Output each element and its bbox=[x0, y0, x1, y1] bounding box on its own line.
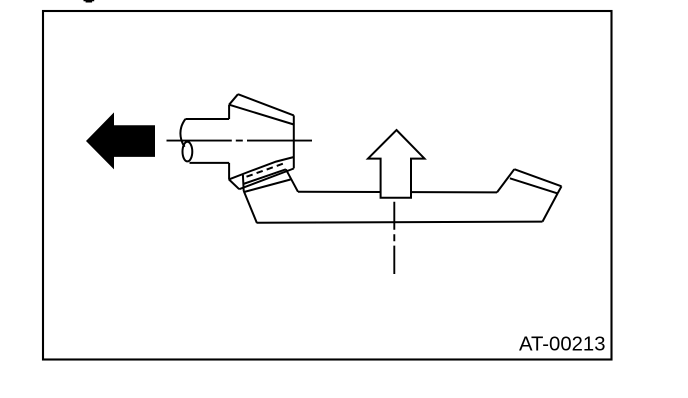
bracket tab top edge bbox=[243, 169, 286, 184]
cone top outer edge bbox=[238, 94, 294, 115]
bracket tab left edge bbox=[242, 175, 245, 191]
bracket right leg bbox=[543, 193, 558, 221]
text fragment cut at top edge bbox=[84, 0, 95, 3]
bracket right rise edge bbox=[497, 169, 514, 192]
cone apex bevel bbox=[229, 94, 238, 105]
bracket bottom edge bbox=[257, 222, 543, 223]
cone bottom outer edge bbox=[239, 169, 294, 190]
up arrow outline bbox=[368, 130, 425, 198]
right tab right edge bbox=[558, 186, 562, 193]
black arrow pointing left bbox=[86, 112, 155, 169]
cone bottom inner edge bbox=[229, 157, 294, 179]
right tab outer top edge bbox=[514, 169, 561, 186]
horizontal center line dash-dot bbox=[167, 140, 313, 142]
cone left edge upper bbox=[228, 105, 230, 119]
bracket top edge bbox=[298, 191, 497, 194]
cone bottom apex bevel bbox=[229, 179, 239, 189]
cone right edge bbox=[293, 115, 295, 168]
bracket tab bottom edge bbox=[244, 180, 291, 193]
vertical center line dash-dot bbox=[393, 202, 395, 274]
bracket left leg bbox=[244, 191, 257, 223]
pipe end silhouette arc bbox=[180, 119, 185, 147]
cone top inner edge bbox=[229, 105, 294, 125]
bracket tab right edge bbox=[286, 169, 298, 192]
pipe top edge bbox=[185, 118, 229, 120]
right tab band lower edge bbox=[510, 178, 558, 193]
pipe bottom edge bbox=[190, 162, 230, 164]
hidden edge dashed line bbox=[247, 164, 284, 177]
cone left edge lower bbox=[228, 163, 230, 180]
figure border frame bbox=[43, 11, 612, 360]
svg-text:AT-00213: AT-00213 bbox=[519, 333, 606, 356]
pipe end ellipse bbox=[183, 142, 193, 162]
